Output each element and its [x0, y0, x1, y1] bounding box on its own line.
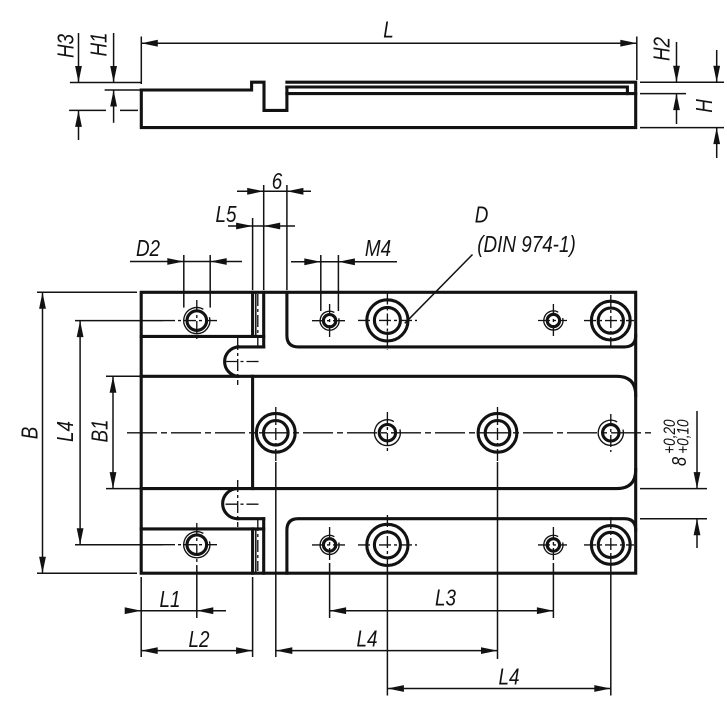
hole D top	[367, 300, 408, 341]
svg-text:L: L	[383, 18, 393, 43]
hole D2 bottom	[187, 535, 207, 555]
dimension L2	[252, 577, 254, 657]
svg-text:L5: L5	[216, 202, 237, 227]
dimension B	[37, 291, 137, 293]
bottom slot right edge	[262, 519, 265, 574]
svg-text:D: D	[475, 203, 489, 228]
bottom slot left edge	[251, 529, 254, 573]
dimension L	[140, 37, 142, 85]
svg-text:D2: D2	[136, 236, 160, 261]
top slot end half-circle	[225, 347, 238, 376]
svg-text:H: H	[692, 98, 717, 112]
side view slit bottom line	[287, 92, 636, 95]
bottom slot end half-circle	[223, 489, 238, 519]
main horizontal centerline	[127, 432, 654, 434]
svg-text:6: 6	[272, 169, 283, 194]
hole M4 bottom	[323, 539, 335, 551]
top slot right edge	[262, 292, 265, 347]
dimension D2	[183, 255, 185, 308]
hole mid 4	[603, 425, 619, 441]
side view plate outline	[141, 82, 287, 110]
dimension L4 left	[75, 320, 163, 322]
hole mid 1	[256, 413, 295, 452]
bottom recess line	[141, 527, 264, 530]
middle band top edge	[141, 376, 636, 395]
dimension H2	[640, 81, 724, 83]
hole D bottom	[367, 524, 408, 565]
svg-text:L1: L1	[160, 587, 181, 612]
hole big top right	[591, 301, 630, 340]
plan outer rectangle	[141, 292, 636, 573]
svg-text:B1: B1	[88, 419, 113, 442]
middle band vertical line	[251, 376, 254, 488]
dimension 8 +0,20/+0,10	[640, 488, 707, 490]
hole mid 3	[478, 413, 517, 452]
top pocket outline	[287, 292, 636, 347]
svg-text:M4: M4	[365, 236, 391, 261]
svg-text:+0,10: +0,10	[674, 419, 693, 454]
top slot inner thin line	[255, 292, 257, 336]
svg-text:B: B	[18, 427, 43, 440]
dimension L3	[552, 563, 554, 618]
svg-text:8: 8	[667, 456, 690, 466]
leader D (DIN 974-1)	[405, 255, 473, 324]
hole D2 top	[187, 311, 207, 331]
dimension B1	[106, 375, 141, 377]
dimension L5	[252, 218, 254, 290]
svg-text:H1: H1	[87, 32, 112, 56]
top recess line	[141, 335, 264, 338]
bottom slot top line	[238, 517, 264, 520]
svg-text:H2: H2	[650, 37, 675, 61]
svg-text:L4: L4	[53, 421, 78, 442]
dimension L4 bottom second	[386, 567, 388, 696]
svg-text:L3: L3	[435, 586, 456, 611]
svg-text:(DIN 974-1): (DIN 974-1)	[477, 232, 575, 257]
middle band bottom edge	[141, 470, 636, 489]
top slot bottom line	[238, 345, 264, 348]
dimension 6	[263, 185, 265, 290]
dimension H1	[105, 89, 141, 91]
hole M4 top	[323, 315, 335, 327]
hole big bottom right	[591, 526, 630, 565]
dimension M4	[320, 255, 322, 311]
top slot left edge	[251, 292, 254, 336]
hole centerline ticks	[163, 320, 217, 322]
hole small top right	[547, 314, 559, 326]
bottom slot inner thin line	[255, 529, 257, 573]
bottom pocket outline	[287, 519, 636, 574]
dimension L4 bottom first	[275, 462, 277, 657]
dimension H3	[70, 82, 141, 84]
side view slit top line	[287, 87, 628, 94]
hole small bottom right	[547, 539, 559, 551]
svg-text:H3: H3	[54, 34, 79, 58]
svg-text:L2: L2	[189, 627, 210, 652]
dimension H	[640, 127, 724, 129]
dimension L1	[140, 577, 142, 657]
hole mid 2	[379, 425, 395, 441]
svg-text:L4: L4	[357, 627, 378, 652]
svg-text:L4: L4	[499, 665, 520, 690]
